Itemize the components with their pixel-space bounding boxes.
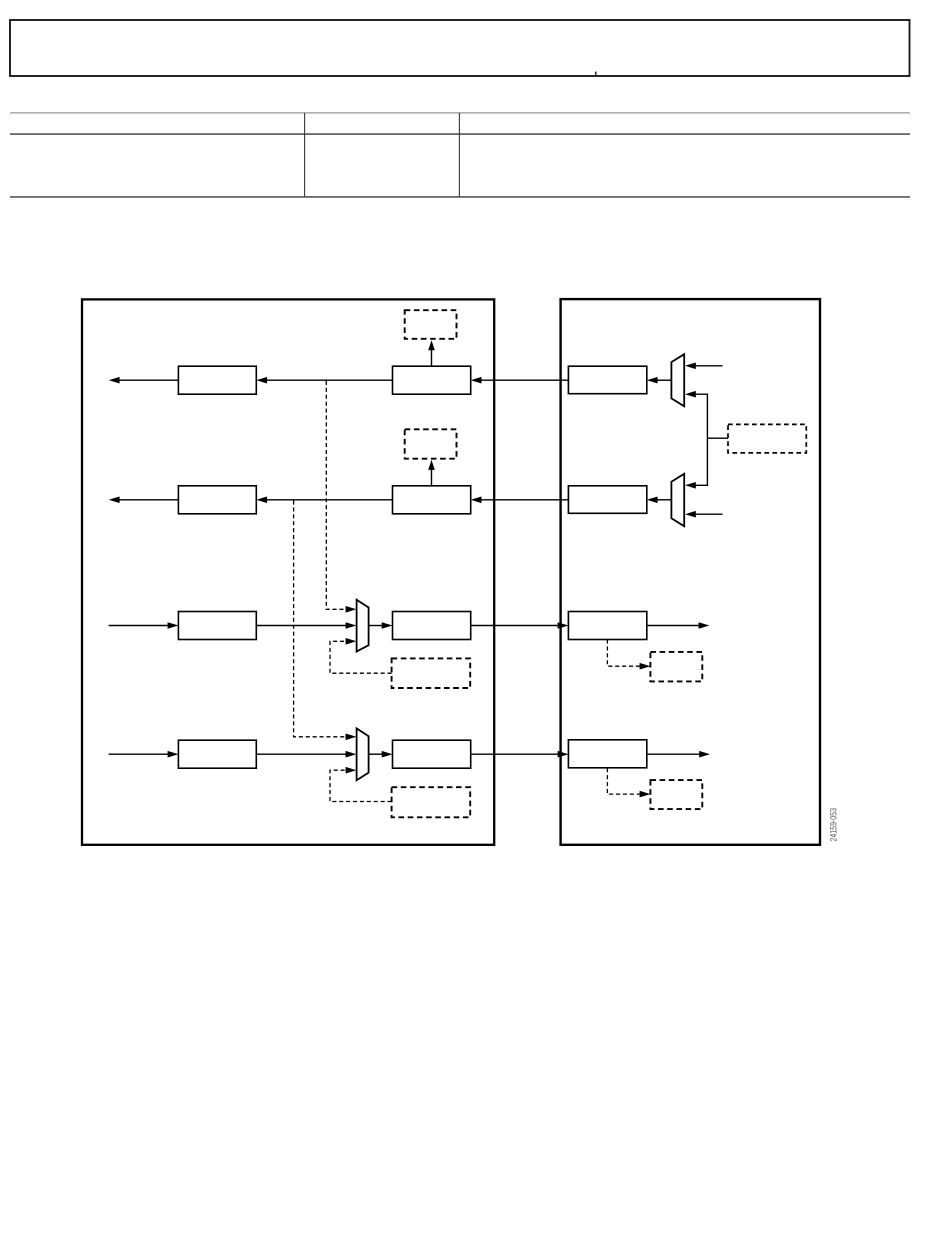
svg-text:24159-053: 24159-053 [827, 808, 838, 842]
